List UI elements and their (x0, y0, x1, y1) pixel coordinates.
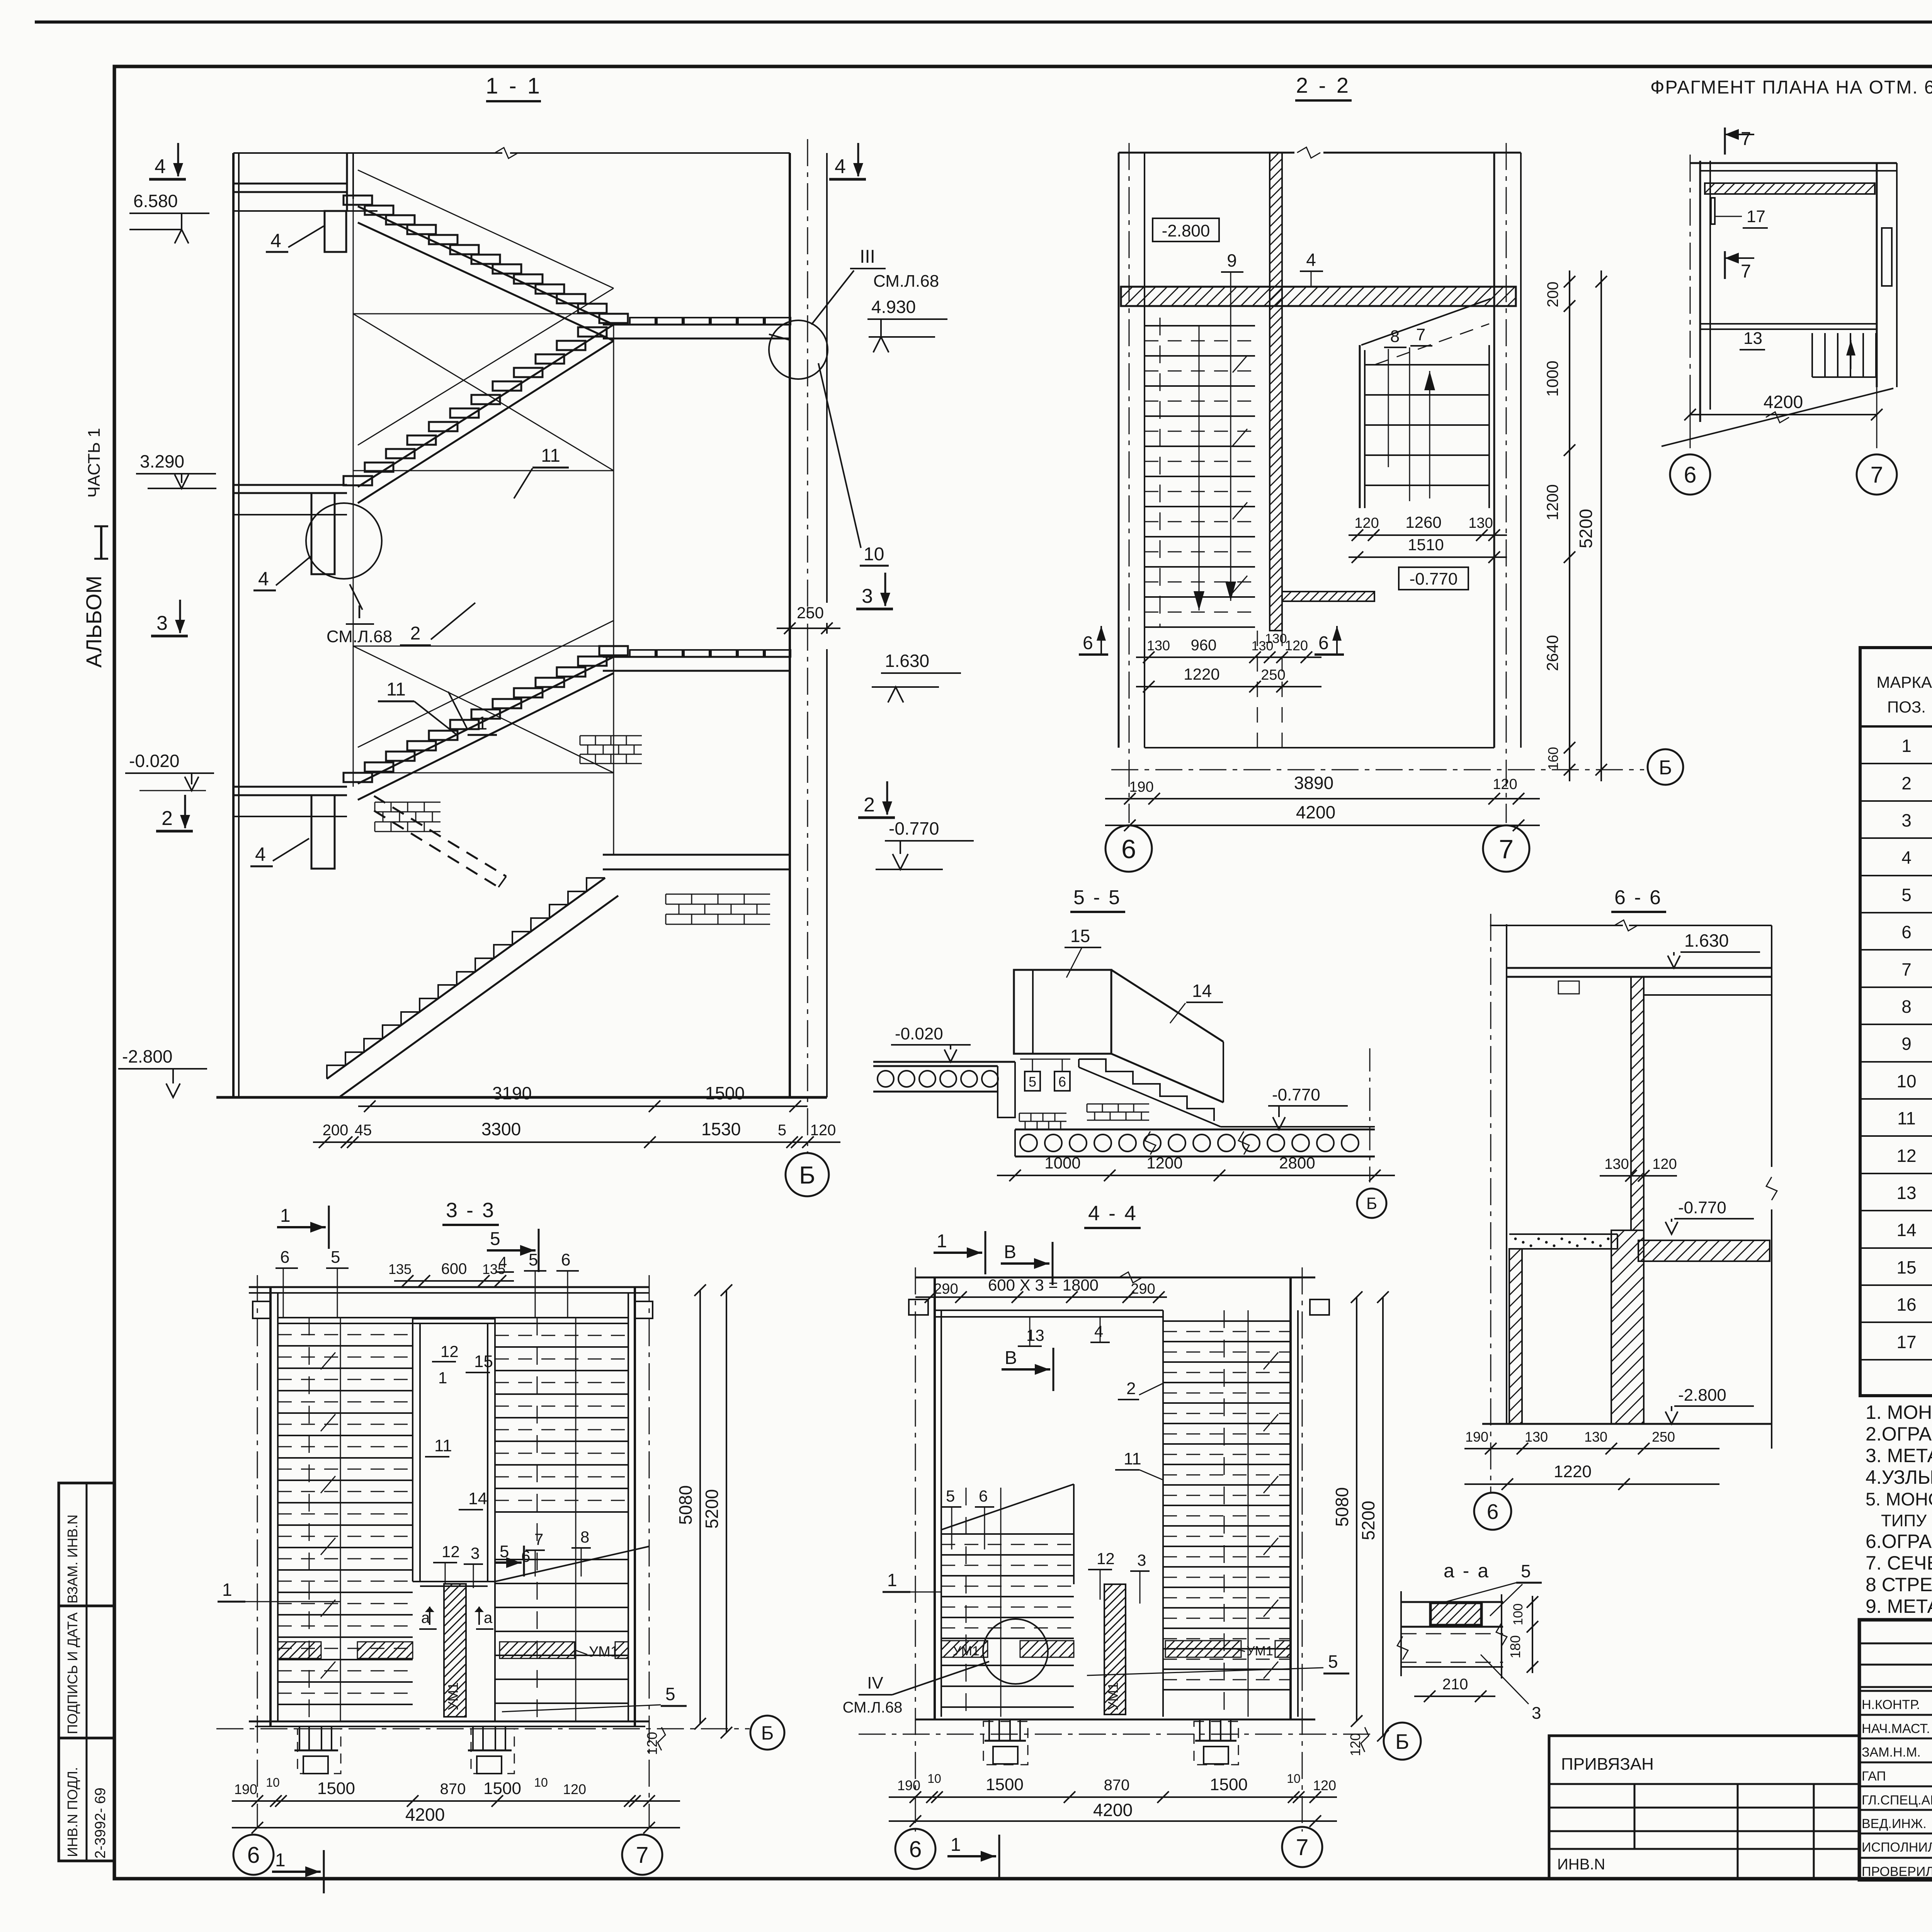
sec5-5 left slab with circles (873, 1065, 998, 1067)
svg-text:3.290: 3.290 (140, 451, 184, 471)
sec5-5 brick patches (1087, 1104, 1149, 1105)
svg-text:12: 12 (442, 1543, 460, 1561)
svg-text:Б: Б (799, 1161, 815, 1189)
sec2-2 left flight slashes (1233, 355, 1247, 372)
svg-text:1: 1 (477, 713, 488, 734)
title block top narrow rows (1859, 1643, 1932, 1645)
frag hatched beam (1705, 183, 1875, 194)
svg-text:1: 1 (951, 1835, 961, 1855)
frag stairs (1811, 333, 1813, 377)
svg-text:5: 5 (1029, 1074, 1036, 1090)
svg-text:5: 5 (1521, 1561, 1531, 1581)
sec2-2 right flight top diagonal (1361, 299, 1491, 345)
frag top wall (1690, 162, 1897, 164)
svg-text:ИНВ.N: ИНВ.N (1557, 1856, 1605, 1873)
svg-text:3: 3 (1532, 1704, 1541, 1723)
svg-text:10: 10 (864, 544, 884, 565)
svg-text:7: 7 (534, 1530, 543, 1548)
svg-text:6: 6 (1083, 633, 1093, 653)
svg-text:ГЛ.СПЕЦ.АР.: ГЛ.СПЕЦ.АР. (1862, 1793, 1932, 1808)
svg-text:-0.020: -0.020 (895, 1024, 943, 1043)
svg-text:7: 7 (1901, 959, 1912, 980)
svg-text:СМ.Л.68: СМ.Л.68 (327, 627, 392, 646)
svg-text:190: 190 (1129, 779, 1153, 795)
svg-text:13: 13 (1743, 329, 1762, 348)
sec3-3 right flight treads lower (495, 1559, 628, 1560)
svg-text:1: 1 (280, 1206, 291, 1226)
svg-text:7: 7 (1741, 261, 1751, 282)
svg-text:7: 7 (1499, 834, 1514, 864)
detail a-a lower slab (1401, 1633, 1503, 1634)
svg-text:4.930: 4.930 (871, 297, 916, 317)
sec3-3 right flight dashed upper (495, 1335, 628, 1336)
sec4-4 right flight verticals (1162, 1310, 1164, 1717)
sec4-4 axis line bottom (859, 1734, 1376, 1735)
sec1-1 brick patch 3 (666, 894, 770, 895)
svg-text:ПОДПИСЬ И ДАТА: ПОДПИСЬ И ДАТА (65, 1612, 80, 1734)
sec3-3 top landing lines (278, 1317, 628, 1318)
svg-text:В: В (1005, 1348, 1017, 1368)
sec6-6 slab 1.630 (1507, 967, 1772, 969)
svg-text:5080: 5080 (1332, 1487, 1352, 1527)
sec2-2 axis line to B circle (1111, 769, 1644, 770)
svg-text:5: 5 (490, 1229, 500, 1249)
svg-text:УМ1: УМ1 (589, 1644, 619, 1660)
svg-text:5200: 5200 (702, 1489, 722, 1529)
svg-text:СМ.Л.68: СМ.Л.68 (873, 272, 939, 291)
svg-text:ЧАСТЬ 1: ЧАСТЬ 1 (85, 428, 104, 498)
svg-text:6.ОГРАЖДЕНИЯ МАРШЕЙ, ПЛОЩАДОК: 6.ОГРАЖДЕНИЯ МАРШЕЙ, ПЛОЩАДОК ПОКАЗАНЫ У… (1866, 1530, 1932, 1552)
sec6-6 landing line right (1645, 994, 1772, 996)
sec1-1 brick patch 2 (375, 802, 440, 803)
svg-text:10: 10 (927, 1772, 941, 1786)
title block name rows (1859, 1690, 1932, 1692)
svg-text:3300: 3300 (481, 1119, 521, 1139)
frag door niche (1882, 228, 1892, 286)
sec1-1 basement flight serrated (327, 878, 605, 1079)
sec1-1 slab 3.290 (233, 484, 347, 486)
svg-text:11: 11 (434, 1436, 452, 1455)
sec5-5 step stringer (1079, 1067, 1221, 1127)
svg-text:5: 5 (946, 1487, 955, 1505)
svg-text:130: 130 (1468, 515, 1493, 531)
sec1-1 left wall (232, 153, 235, 1097)
svg-text:11: 11 (541, 446, 560, 466)
svg-text:13: 13 (1026, 1326, 1044, 1344)
sec5-5 lower slab with circles (1015, 1129, 1375, 1131)
svg-text:1500: 1500 (705, 1083, 745, 1103)
svg-text:10: 10 (1896, 1071, 1916, 1091)
svg-text:1510: 1510 (1408, 536, 1444, 554)
svg-text:УМ1: УМ1 (1105, 1682, 1121, 1711)
svg-text:130: 130 (1265, 631, 1287, 646)
svg-text:960: 960 (1191, 637, 1217, 654)
frag axis circle 7 (1857, 454, 1897, 495)
svg-text:2-3992- 69: 2-3992- 69 (92, 1787, 109, 1859)
sec1-1 landing 1.630 (603, 656, 790, 658)
svg-text:Б: Б (1366, 1194, 1377, 1213)
svg-text:120: 120 (1354, 515, 1379, 531)
svg-text:ИСПОЛНИЛ: ИСПОЛНИЛ (1862, 1840, 1932, 1855)
svg-text:4: 4 (270, 230, 281, 252)
svg-text:АЛЬБОМ: АЛЬБОМ (82, 576, 106, 668)
sec3-3 axis verticals (257, 1275, 258, 1828)
detail a-a dims 100 180 (1532, 1596, 1533, 1673)
svg-text:3: 3 (1137, 1551, 1146, 1569)
sec2-2 inner dims 130 960 130 130 120 (1136, 656, 1321, 658)
svg-text:7: 7 (1416, 325, 1425, 344)
svg-text:2.ОГРАЖДЕНИЯ ЛЕСТНИЦЫ РАЗРАБОТ: 2.ОГРАЖДЕНИЯ ЛЕСТНИЦЫ РАЗРАБОТАНЫ НА Л. … (1866, 1423, 1932, 1445)
svg-text:6: 6 (909, 1837, 922, 1862)
svg-text:1000: 1000 (1044, 1154, 1080, 1172)
svg-text:1500: 1500 (483, 1779, 521, 1798)
sec1-1 wall above 6.580 (346, 153, 348, 211)
svg-text:1: 1 (937, 1231, 947, 1252)
svg-text:12: 12 (1896, 1146, 1916, 1166)
frag left axis (1690, 155, 1691, 429)
svg-text:10: 10 (1287, 1772, 1301, 1786)
svg-text:ПОЗ.: ПОЗ. (1887, 698, 1926, 716)
svg-text:4 - 4: 4 - 4 (1088, 1202, 1138, 1225)
svg-text:9: 9 (1901, 1034, 1912, 1054)
sec4-4 axis circles 6 7 (895, 1829, 935, 1869)
svg-text:8: 8 (1901, 997, 1912, 1017)
svg-text:16: 16 (1896, 1294, 1916, 1315)
svg-text:5080: 5080 (675, 1485, 696, 1525)
sec5-5 inclined guard (1111, 970, 1223, 1042)
sec1-1 thin well lines (353, 196, 354, 787)
sec5-5 landing top line (1221, 1126, 1375, 1128)
sec1-1 landing -0.770 (603, 854, 790, 856)
sec3-3 left flight treads (278, 1323, 413, 1324)
sec3-3 plan outer (249, 1286, 649, 1288)
svg-text:Б: Б (761, 1722, 774, 1744)
svg-text:130: 130 (1604, 1156, 1629, 1172)
svg-text:6: 6 (1121, 834, 1136, 864)
sec1-1 ground line -2.800 (216, 1096, 827, 1099)
frag landing lines (1700, 323, 1877, 325)
sec6-6 speckled slab (1509, 1233, 1617, 1235)
spec table rows (1860, 763, 1932, 764)
svg-text:2640: 2640 (1543, 635, 1561, 671)
svg-text:ИНВ.N ПОДЛ.: ИНВ.N ПОДЛ. (65, 1767, 80, 1857)
sec5-5 steps profile (1079, 1059, 1214, 1121)
sec6-6 dims 130 120 (1600, 1175, 1677, 1177)
svg-text:120: 120 (1313, 1777, 1336, 1793)
svg-text:ПРИВЯЗАН: ПРИВЯЗАН (1561, 1755, 1654, 1774)
svg-text:135: 135 (482, 1261, 505, 1277)
sec4-4 top dims 290 600x3=1800 290 (915, 1296, 1167, 1298)
sec5-5 axis to B (1369, 1048, 1371, 1182)
sec3-3 right flight diag cut (495, 1546, 649, 1582)
sec2-2 right dim 5200 (1600, 270, 1602, 781)
sec2-2 axis circle 6 (1105, 825, 1152, 872)
svg-text:290: 290 (1131, 1281, 1155, 1297)
svg-text:1500: 1500 (317, 1779, 355, 1798)
svg-text:5 - 5: 5 - 5 (1073, 886, 1121, 909)
svg-text:11: 11 (386, 679, 406, 700)
svg-text:2: 2 (162, 807, 173, 830)
sec1-1 landing 4.930 (603, 324, 790, 326)
sec3-3 bottom dim row (232, 1800, 680, 1802)
sec3-3 B circle right (750, 1716, 784, 1750)
frag diagonal break (1662, 388, 1893, 446)
svg-text:6 - 6: 6 - 6 (1614, 886, 1662, 909)
sec4-4 left flight diag cut (941, 1484, 1074, 1530)
svg-text:5: 5 (529, 1250, 538, 1269)
sec2-2 landing strip hatched (1282, 592, 1374, 601)
sec3-3 left flight slashes (321, 1352, 335, 1369)
svg-text:1220: 1220 (1554, 1462, 1592, 1481)
svg-text:4: 4 (255, 844, 266, 865)
svg-text:5: 5 (1901, 885, 1912, 905)
sec6-6 central wall hatched (1631, 977, 1644, 1230)
svg-text:1: 1 (887, 1570, 897, 1590)
svg-text:-0.770: -0.770 (1410, 570, 1458, 588)
svg-text:4200: 4200 (1296, 802, 1335, 822)
svg-text:1. МОНОЛИТНАЯ БАЛКА РАЗРАБОТАН: 1. МОНОЛИТНАЯ БАЛКА РАЗРАБОТАНА НА Л. 70 (1866, 1401, 1932, 1423)
svg-text:6: 6 (1058, 1074, 1066, 1090)
sec3-3 footing left (299, 1726, 300, 1750)
svg-text:1: 1 (438, 1369, 447, 1387)
svg-text:4: 4 (835, 155, 846, 178)
svg-text:15: 15 (474, 1352, 493, 1371)
svg-text:7: 7 (1741, 129, 1751, 149)
svg-text:290: 290 (934, 1281, 958, 1297)
svg-text:-0.020: -0.020 (129, 751, 179, 771)
svg-text:1: 1 (275, 1850, 286, 1871)
svg-text:160: 160 (1545, 747, 1561, 770)
svg-text:4: 4 (1094, 1322, 1103, 1340)
svg-text:ЗАМ.Н.М.: ЗАМ.Н.М. (1862, 1745, 1921, 1760)
svg-text:2: 2 (410, 623, 421, 644)
sec3-3 bottom dim 4200 (232, 1827, 680, 1828)
sec1-1 top ceiling line (233, 152, 502, 154)
sec2-2 left flight dashed lines (1145, 340, 1255, 342)
sec4-4 right flight dashed (1163, 1331, 1291, 1332)
sec3-3 right dims 5080 5200 (699, 1290, 701, 1724)
sec2-2 beam hatched (1121, 287, 1516, 306)
svg-text:4200: 4200 (1093, 1800, 1133, 1820)
svg-text:9: 9 (1227, 250, 1237, 270)
sec2-2 dim 120 1260 130 (1349, 534, 1507, 536)
sec5-5 floor line (873, 1061, 1015, 1063)
sec4-4 B circle right (1384, 1723, 1421, 1760)
sec6-6 axis circle 6 (1474, 1493, 1511, 1530)
svg-text:4: 4 (1306, 250, 1316, 270)
sec4-4 right dims 5080 5200 (1356, 1297, 1357, 1721)
svg-text:15: 15 (1896, 1257, 1916, 1277)
svg-text:УМ1: УМ1 (445, 1682, 461, 1711)
sec4-4 axis verticals (915, 1267, 916, 1832)
sec6-6 central wall below hatched (1611, 1230, 1644, 1424)
sec6-6 left axis (1490, 914, 1492, 1492)
svg-text:-0.770: -0.770 (1272, 1085, 1320, 1104)
svg-text:4: 4 (258, 568, 269, 590)
svg-text:130: 130 (1525, 1429, 1548, 1445)
svg-text:120: 120 (563, 1781, 586, 1797)
svg-text:9. МЕТАЛЛИЧЕСКИЕ КОСОУРЫ ОШТУК: 9. МЕТАЛЛИЧЕСКИЕ КОСОУРЫ ОШТУКАТУРИТЬ ПО… (1866, 1595, 1932, 1617)
sec3-3 left flight dashed (278, 1334, 413, 1335)
svg-text:УМ1: УМ1 (953, 1644, 980, 1658)
svg-text:а - а: а - а (1444, 1560, 1490, 1582)
svg-text:6: 6 (1901, 922, 1912, 942)
sec4-4 corner tabs (909, 1299, 928, 1315)
svg-text:8: 8 (580, 1528, 589, 1546)
sec2-2 outline top (1119, 152, 1294, 154)
spec table header row line (1860, 725, 1932, 728)
sec6-6 left wall edge (1506, 924, 1507, 1424)
svg-text:4200: 4200 (1764, 392, 1803, 412)
sec2-2 bottom dim 190 3890 120 (1105, 798, 1540, 799)
sec1-1 detail circle I (306, 503, 382, 579)
sec4-4 left flight axes (966, 1488, 967, 1717)
sec3-3 well box (412, 1318, 413, 1582)
svg-text:11: 11 (1124, 1449, 1141, 1468)
svg-text:8 СТРЕМЯНКУ МПЛ4-2 КРЕПИТЬ ПО: 8 СТРЕМЯНКУ МПЛ4-2 КРЕПИТЬ ПО ВЫСОТЕ В Д… (1866, 1574, 1932, 1595)
svg-text:3: 3 (156, 612, 168, 634)
sec2-2 right flight (1359, 345, 1361, 508)
frag right wall (1876, 163, 1878, 387)
svg-text:2: 2 (1126, 1379, 1136, 1398)
svg-text:IV: IV (867, 1673, 883, 1692)
sec1-1 bottom dim row2 (313, 1141, 840, 1143)
svg-text:УМ1: УМ1 (1247, 1644, 1273, 1658)
sec1-1 railing diagonals (358, 170, 614, 288)
sec1-1 column at 3.290 (311, 493, 335, 574)
sec5-5 dims 1000 1200 2800 (997, 1175, 1395, 1176)
svg-text:1220: 1220 (1184, 665, 1219, 683)
sec3-3 right flight treads upper (495, 1323, 628, 1324)
svg-text:2800: 2800 (1279, 1154, 1315, 1172)
svg-text:180: 180 (1507, 1635, 1523, 1658)
svg-text:4: 4 (1901, 847, 1912, 867)
svg-text:5200: 5200 (1576, 509, 1596, 548)
svg-text:3: 3 (862, 585, 873, 607)
svg-text:Б: Б (1659, 757, 1672, 779)
sec6-6 ground line (1482, 1423, 1772, 1425)
frag dim 4200 (1690, 414, 1877, 415)
sec4-4 right flight slashes (1264, 1352, 1278, 1369)
svg-text:250: 250 (797, 604, 824, 622)
svg-text:17: 17 (1896, 1332, 1916, 1352)
svg-text:1 - 1: 1 - 1 (486, 73, 542, 99)
svg-text:120: 120 (1652, 1156, 1677, 1172)
svg-text:15: 15 (1070, 926, 1090, 946)
privyazan table (1549, 1736, 1859, 1879)
svg-text:1: 1 (222, 1580, 232, 1600)
svg-text:45: 45 (355, 1122, 372, 1139)
sec1-1 flight mid (3.290 to 4.930) (358, 325, 614, 487)
sec1-1 hidden flight dashed (374, 796, 506, 876)
svg-text:120: 120 (810, 1122, 836, 1139)
svg-text:14: 14 (1192, 981, 1212, 1001)
svg-text:17: 17 (1747, 207, 1765, 226)
svg-text:6: 6 (979, 1487, 988, 1505)
sec2-2 dashed well lines below (1257, 631, 1258, 748)
sec1-1 bottom dim row1 3190 1500 (358, 1105, 808, 1107)
svg-text:100: 100 (1511, 1604, 1526, 1626)
sec4-4 top landing lines (935, 1310, 1163, 1311)
svg-text:190: 190 (897, 1777, 920, 1793)
svg-text:200: 200 (1544, 282, 1561, 308)
svg-text:СМ.Л.68: СМ.Л.68 (843, 1699, 903, 1716)
svg-text:13: 13 (1896, 1183, 1916, 1203)
svg-text:12: 12 (440, 1342, 459, 1361)
sec3-3 right flight verticals (537, 1318, 538, 1721)
sec2-2 level box -2.800 (1153, 218, 1219, 241)
frag axis circle 6 (1670, 454, 1710, 495)
sec2-2 left wall (1118, 153, 1120, 748)
sec1-1 flight top (6.580 to 4.930) (358, 206, 614, 325)
svg-text:10: 10 (534, 1776, 548, 1789)
svg-text:ФРАГМЕНТ ПЛАНА НА ОТМ. 6.580: ФРАГМЕНТ ПЛАНА НА ОТМ. 6.580 (1650, 77, 1932, 98)
sec3-3 footing right (472, 1726, 474, 1750)
sec1-1 opor pad detail III circle (769, 320, 828, 379)
left rotated stamp table (59, 1483, 114, 1861)
svg-text:130: 130 (1584, 1429, 1607, 1445)
sec3-3 axis circles 6 7 (233, 1835, 274, 1875)
svg-text:ПРОВЕРИЛ: ПРОВЕРИЛ (1862, 1864, 1932, 1879)
svg-text:3: 3 (471, 1544, 480, 1562)
sec4-4 bottom dim 4200 (889, 1820, 1337, 1822)
svg-text:2: 2 (1901, 773, 1912, 793)
spec table outer (1860, 648, 1932, 1396)
svg-text:870: 870 (1104, 1777, 1130, 1794)
svg-text:11: 11 (1897, 1108, 1916, 1128)
svg-text:-2.800: -2.800 (122, 1046, 172, 1066)
svg-text:-0.770: -0.770 (889, 818, 939, 838)
svg-text:7: 7 (1296, 1835, 1309, 1860)
svg-text:200: 200 (323, 1122, 349, 1139)
svg-text:600: 600 (441, 1260, 467, 1277)
svg-text:135: 135 (388, 1261, 412, 1277)
sec6-6 dim 1220 (1464, 1483, 1719, 1485)
sec4-4 left flight treads (941, 1533, 1074, 1535)
sec1-1 column under 6.580 landing (325, 211, 346, 252)
sec4-4 bottom dim row (889, 1796, 1337, 1798)
sec6-6 right hatched slab (1638, 1240, 1770, 1261)
svg-text:ВЗАМ. ИНВ.N: ВЗАМ. ИНВ.N (65, 1515, 80, 1604)
svg-text:8: 8 (1390, 327, 1400, 346)
svg-text:4200: 4200 (405, 1804, 445, 1825)
svg-text:2: 2 (864, 794, 875, 816)
sec2-2 central wall hatched (1270, 153, 1282, 631)
svg-text:1000: 1000 (1543, 361, 1561, 396)
svg-text:7: 7 (636, 1842, 649, 1868)
svg-text:6: 6 (1684, 462, 1697, 488)
sec5-5 small boxes 5 6 (1025, 1071, 1040, 1091)
sec4-4 detail circle IV (983, 1619, 1048, 1684)
svg-text:В: В (1004, 1242, 1016, 1262)
sec4-4 plan outer (915, 1277, 1315, 1279)
sec5-5 step notch (998, 1062, 1015, 1117)
svg-text:14: 14 (1896, 1220, 1916, 1240)
title block outer (1859, 1620, 1932, 1880)
svg-text:НАЧ.МАСТ.: НАЧ.МАСТ. (1862, 1721, 1930, 1736)
sec2-2 bottom line (1145, 747, 1494, 748)
svg-text:120: 120 (1285, 638, 1308, 653)
sec1-1 slab -0.020 (233, 786, 347, 788)
svg-text:6: 6 (561, 1250, 570, 1269)
svg-text:1200: 1200 (1146, 1154, 1182, 1172)
sec3-3 left flight axis lines (309, 1318, 310, 1721)
svg-text:6: 6 (247, 1842, 260, 1868)
svg-text:Б: Б (1395, 1730, 1409, 1753)
frag stairs arrow (1850, 340, 1852, 369)
svg-text:600 X 3 = 1800: 600 X 3 = 1800 (988, 1276, 1099, 1294)
svg-text:ВЕД.ИНЖ.: ВЕД.ИНЖ. (1862, 1816, 1927, 1831)
